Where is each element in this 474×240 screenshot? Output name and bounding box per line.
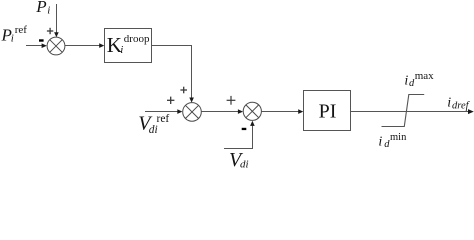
svg-text:PI: PI [319, 101, 337, 123]
label id_max [404, 70, 434, 89]
svg-text:i: i [120, 44, 123, 56]
svg-text:ref: ref [15, 24, 28, 36]
label idref [447, 95, 470, 111]
wire S2 to summing junction S3 [201, 109, 243, 114]
block PI [304, 91, 351, 131]
svg-text:i: i [47, 5, 50, 17]
label Pi_ref [1, 24, 28, 45]
wire S3 to block PI [261, 109, 303, 114]
minus sign on Vdi feedback [242, 128, 247, 130]
summing junction S3 [243, 102, 261, 120]
label Vdi [229, 149, 249, 171]
wire Vdi_ref input into summing junction S2 [145, 109, 182, 114]
wire Vdi feedback into S3 from below [224, 121, 255, 149]
wire Pi_ref input into summing junction S1 [26, 43, 47, 48]
wire Pi input from top into summing junction S1 [54, 4, 59, 37]
svg-text:ref: ref [157, 113, 170, 125]
svg-text:dref: dref [452, 101, 471, 112]
plus sign on droop input to S2 [180, 87, 187, 94]
svg-text:min: min [390, 132, 407, 143]
minus sign on Pi_ref input [39, 39, 44, 41]
svg-text:max: max [415, 70, 434, 82]
summing junction S2 [183, 103, 202, 122]
plus sign on S2 output into S3 [227, 96, 236, 105]
svg-text:i: i [447, 95, 451, 110]
label Pi [35, 0, 50, 17]
plus sign on Pi input [47, 28, 53, 34]
svg-text:di: di [149, 124, 158, 136]
label Vdi_ref [138, 113, 169, 137]
label id_min [378, 132, 407, 150]
saturation limiter [382, 95, 425, 127]
block Ki_droop [105, 29, 152, 63]
wire Ki_droop output down into summing junction S2 [152, 46, 194, 103]
summing junction S1 [47, 37, 65, 55]
svg-text:i: i [378, 134, 382, 149]
svg-text:droop: droop [124, 33, 150, 45]
svg-text:di: di [240, 159, 249, 169]
svg-text:P: P [35, 0, 46, 16]
wire PI output to idref output arrow [351, 109, 474, 114]
svg-text:i: i [404, 74, 408, 89]
plus sign on Vdi_ref input [167, 97, 174, 104]
wire S1 to block Ki_droop [65, 43, 104, 48]
label PI [319, 101, 337, 123]
svg-text:i: i [11, 33, 14, 45]
label Ki_droop [107, 33, 150, 57]
